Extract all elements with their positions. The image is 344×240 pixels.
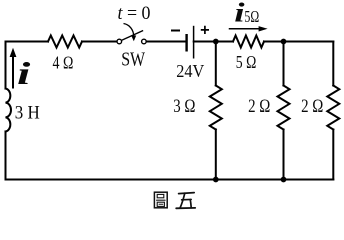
svg-text:2 Ω: 2 Ω <box>248 97 270 117</box>
svg-text:3 H: 3 H <box>15 103 40 123</box>
svg-text:SW: SW <box>121 48 145 70</box>
svg-text:i: i <box>17 56 31 91</box>
svg-text:t = 0: t = 0 <box>118 4 151 24</box>
svg-text:3 Ω: 3 Ω <box>173 97 195 117</box>
svg-text:i: i <box>234 0 244 28</box>
svg-text:24V: 24V <box>176 61 204 81</box>
svg-text:2 Ω: 2 Ω <box>301 97 323 117</box>
svg-text:4 Ω: 4 Ω <box>53 52 74 72</box>
svg-text:5 Ω: 5 Ω <box>236 52 256 72</box>
svg-text:5Ω: 5Ω <box>244 7 259 26</box>
